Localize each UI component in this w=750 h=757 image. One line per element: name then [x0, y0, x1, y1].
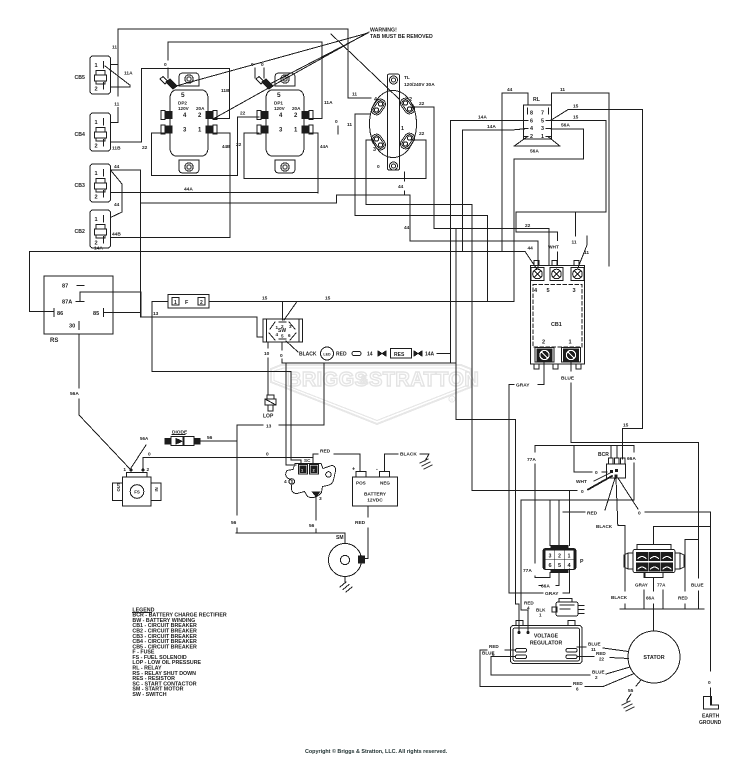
svg-text:1: 1 [95, 120, 98, 126]
svg-text:44A: 44A [320, 144, 329, 149]
svg-text:2: 2 [409, 97, 412, 103]
svg-text:0: 0 [266, 452, 269, 458]
svg-text:11: 11 [572, 240, 577, 246]
svg-text:0: 0 [261, 62, 264, 68]
svg-text:REGULATOR: REGULATOR [530, 641, 563, 647]
svg-text:0: 0 [638, 511, 641, 517]
svg-text:66A: 66A [627, 456, 636, 462]
svg-text:56A: 56A [140, 436, 149, 441]
svg-text:FS: FS [134, 490, 140, 495]
svg-text:30: 30 [69, 324, 75, 330]
svg-text:0: 0 [581, 489, 584, 495]
svg-text:14A: 14A [425, 352, 435, 358]
svg-text:11A: 11A [324, 100, 333, 106]
svg-text:NEG: NEG [380, 481, 390, 486]
svg-text:20A: 20A [292, 106, 301, 111]
svg-text:2: 2 [281, 324, 284, 329]
svg-text:BLUE: BLUE [561, 376, 575, 382]
svg-text:22: 22 [525, 223, 531, 229]
svg-text:6: 6 [288, 333, 291, 338]
svg-text:14A: 14A [478, 115, 487, 121]
svg-text:77A: 77A [657, 583, 666, 588]
svg-text:CB5: CB5 [75, 75, 85, 81]
svg-text:11A: 11A [124, 71, 133, 77]
svg-text:56: 56 [231, 520, 237, 526]
svg-text:RED: RED [489, 644, 499, 649]
svg-text:DP1: DP1 [274, 101, 283, 106]
svg-text:2: 2 [530, 134, 533, 140]
svg-text:P: P [580, 559, 584, 565]
svg-text:STRATTON: STRATTON [369, 369, 479, 391]
svg-text:11: 11 [584, 250, 589, 256]
svg-text:56A: 56A [561, 123, 570, 129]
svg-text:20A: 20A [196, 106, 205, 111]
svg-text:RED: RED [336, 352, 347, 358]
svg-text:Copyright © Briggs & Stratton,: Copyright © Briggs & Stratton, LLC. All … [305, 748, 448, 755]
svg-text:87: 87 [62, 284, 68, 290]
svg-text:5: 5 [547, 288, 550, 294]
svg-text:2: 2 [595, 675, 598, 680]
svg-text:13: 13 [153, 311, 159, 317]
svg-text:44A: 44A [184, 187, 193, 193]
svg-text:120/240V 30A: 120/240V 30A [404, 82, 435, 88]
svg-text:RED: RED [320, 449, 331, 455]
svg-text:15: 15 [325, 296, 331, 302]
svg-text:3: 3 [373, 147, 376, 153]
svg-text:44: 44 [404, 225, 410, 231]
svg-text:TAB MUST BE REMOVED: TAB MUST BE REMOVED [370, 34, 433, 40]
svg-text:12VDC: 12VDC [367, 498, 383, 504]
svg-text:6: 6 [530, 118, 533, 124]
svg-text:85: 85 [93, 311, 99, 317]
svg-text:IN: IN [154, 487, 159, 491]
svg-text:RS: RS [50, 338, 58, 344]
svg-text:WHT: WHT [548, 245, 559, 251]
svg-text:RED: RED [596, 651, 606, 656]
svg-text:0: 0 [335, 119, 338, 125]
svg-text:0: 0 [377, 164, 380, 170]
svg-text:SC: SC [304, 458, 311, 463]
svg-text:1: 1 [95, 217, 98, 223]
svg-text:BLUE: BLUE [592, 670, 605, 675]
svg-text:4: 4 [276, 332, 279, 337]
svg-text:7: 7 [541, 111, 544, 117]
svg-text:15: 15 [262, 296, 268, 302]
svg-text:77A: 77A [523, 568, 532, 574]
svg-text:44B: 44B [222, 144, 231, 149]
svg-text:66A: 66A [541, 584, 550, 590]
svg-text:6: 6 [548, 563, 551, 569]
svg-text:GRAY: GRAY [545, 591, 559, 597]
svg-text:2: 2 [542, 340, 545, 346]
svg-text:BLACK: BLACK [400, 452, 417, 458]
svg-text:22: 22 [240, 111, 246, 117]
svg-text:3: 3 [573, 288, 576, 294]
svg-text:5: 5 [541, 118, 544, 124]
svg-text:2: 2 [200, 300, 203, 306]
svg-text:0: 0 [148, 452, 151, 458]
svg-text:44: 44 [528, 246, 534, 252]
svg-text:BLACK: BLACK [596, 524, 613, 529]
svg-text:15: 15 [573, 104, 579, 110]
svg-text:&: & [360, 373, 369, 387]
svg-text:BRIGGS: BRIGGS [287, 369, 368, 391]
svg-text:11: 11 [112, 45, 117, 51]
svg-text:11: 11 [560, 87, 565, 93]
svg-text:1: 1 [174, 300, 177, 306]
svg-text:BATTERY: BATTERY [364, 492, 387, 498]
svg-text:0: 0 [595, 470, 598, 476]
svg-text:1: 1 [569, 340, 572, 346]
svg-text:10: 10 [264, 351, 270, 357]
svg-text:GRAY: GRAY [516, 383, 530, 389]
svg-text:8: 8 [530, 111, 533, 117]
svg-text:56: 56 [207, 435, 213, 441]
svg-text:120V: 120V [178, 106, 190, 111]
svg-text:3: 3 [319, 496, 322, 502]
svg-text:22: 22 [236, 142, 242, 148]
svg-text:+: + [352, 467, 355, 473]
svg-text:0: 0 [280, 353, 283, 359]
svg-text:0: 0 [251, 62, 254, 68]
svg-text:120V: 120V [274, 106, 286, 111]
svg-text:5: 5 [558, 563, 561, 569]
svg-text:2: 2 [95, 144, 98, 150]
svg-text:44: 44 [507, 87, 513, 93]
svg-text:15: 15 [573, 115, 579, 121]
svg-text:22: 22 [599, 657, 605, 662]
svg-text:1: 1 [568, 554, 571, 560]
svg-text:3: 3 [541, 126, 544, 132]
svg-text:RED: RED [355, 520, 366, 526]
svg-text:22: 22 [419, 131, 425, 137]
svg-text:-: - [376, 467, 378, 473]
svg-text:CB4: CB4 [75, 132, 85, 138]
svg-text:1: 1 [541, 134, 544, 140]
svg-text:2: 2 [95, 87, 98, 93]
svg-text:BLACK: BLACK [611, 595, 628, 600]
svg-text:OUT: OUT [116, 482, 121, 491]
svg-text:GRAY: GRAY [635, 583, 648, 588]
svg-text:1: 1 [95, 171, 98, 177]
svg-text:87A: 87A [62, 300, 72, 306]
svg-text:14A: 14A [487, 124, 496, 130]
svg-text:14: 14 [367, 352, 373, 358]
svg-text:LOP: LOP [263, 414, 274, 420]
svg-text:RED: RED [587, 511, 598, 517]
svg-text:56: 56 [309, 523, 315, 529]
svg-text:TL: TL [404, 75, 410, 81]
svg-text:DP2: DP2 [178, 101, 187, 106]
svg-text:44: 44 [398, 184, 404, 190]
svg-text:RED: RED [573, 681, 583, 686]
svg-text:44B: 44B [112, 232, 121, 238]
svg-text:55: 55 [628, 688, 634, 694]
svg-text:11B: 11B [221, 88, 230, 94]
svg-text:14A: 14A [94, 245, 103, 251]
svg-text:SW - SWITCH: SW - SWITCH [132, 692, 166, 698]
svg-text:3: 3 [289, 324, 292, 329]
svg-text:RED: RED [678, 596, 688, 601]
svg-text:15: 15 [623, 423, 629, 429]
svg-text:0: 0 [164, 62, 167, 68]
svg-text:4: 4 [374, 97, 377, 103]
svg-text:BLUE: BLUE [691, 583, 704, 588]
svg-text:GROUND: GROUND [699, 720, 722, 726]
svg-text:11: 11 [114, 102, 119, 108]
svg-text:RL: RL [533, 97, 541, 103]
svg-text:1: 1 [95, 63, 98, 69]
svg-text:56A: 56A [530, 149, 539, 155]
svg-text:1: 1 [401, 126, 404, 132]
svg-text:RES: RES [394, 352, 405, 358]
svg-text:CB2: CB2 [75, 229, 85, 235]
svg-text:56A: 56A [70, 391, 79, 397]
svg-text:WHT: WHT [576, 479, 587, 485]
svg-text:1: 1 [123, 467, 126, 473]
svg-text:13: 13 [266, 424, 272, 430]
svg-text:SM: SM [336, 535, 344, 541]
svg-text:5: 5 [277, 92, 281, 99]
svg-text:R: R [451, 397, 454, 402]
svg-text:3: 3 [549, 554, 552, 560]
svg-text:LED: LED [323, 353, 331, 357]
svg-text:22: 22 [419, 101, 425, 107]
svg-text:BLUE: BLUE [482, 651, 495, 656]
svg-text:11B: 11B [112, 146, 121, 152]
svg-text:STATOR: STATOR [643, 655, 664, 661]
svg-text:CB3: CB3 [75, 183, 85, 189]
svg-text:WARNING!: WARNING! [370, 28, 397, 34]
svg-text:44: 44 [114, 164, 120, 170]
svg-text:4: 4 [530, 126, 533, 132]
svg-text:4: 4 [284, 479, 287, 485]
svg-text:1: 1 [539, 613, 542, 618]
svg-text:44: 44 [114, 202, 120, 208]
svg-text:BCR: BCR [598, 452, 609, 458]
svg-text:6: 6 [576, 687, 579, 692]
svg-text:2: 2 [147, 467, 150, 473]
svg-text:EARTH: EARTH [702, 714, 720, 720]
svg-text:2: 2 [95, 195, 98, 201]
svg-text:VOLTAGE: VOLTAGE [534, 634, 559, 640]
svg-text:77A: 77A [527, 457, 536, 463]
svg-text:5: 5 [181, 92, 185, 99]
svg-text:11: 11 [352, 92, 357, 98]
svg-text:POS: POS [356, 481, 366, 486]
svg-text:CB1: CB1 [551, 322, 562, 328]
svg-text:0: 0 [708, 680, 711, 686]
svg-text:66A: 66A [646, 596, 655, 601]
svg-text:86: 86 [57, 311, 63, 317]
svg-text:BLACK: BLACK [299, 352, 317, 358]
svg-text:11: 11 [347, 122, 352, 128]
svg-text:5: 5 [281, 334, 284, 339]
svg-text:2: 2 [558, 554, 561, 560]
svg-text:1: 1 [276, 325, 279, 330]
svg-text:22: 22 [142, 145, 148, 151]
svg-text:BLUE: BLUE [588, 642, 601, 647]
